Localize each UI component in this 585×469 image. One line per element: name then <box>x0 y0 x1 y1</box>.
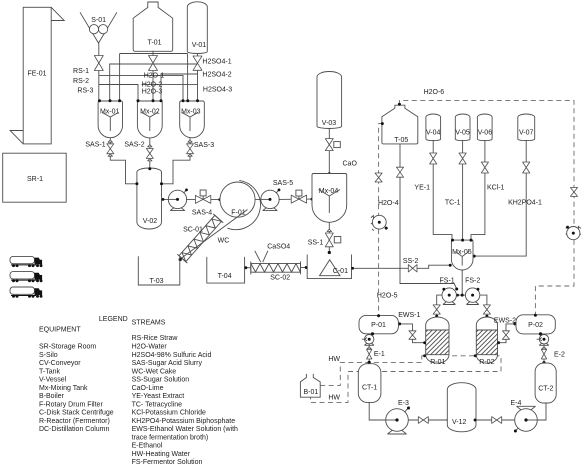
svg-text:SAS-4: SAS-4 <box>192 210 212 217</box>
valve E-2 <box>541 347 565 359</box>
svg-text:YE-1: YE-1 <box>414 185 430 192</box>
svg-text:SS-Sugar Solution: SS-Sugar Solution <box>132 377 190 384</box>
wire FS-1 to R-01 <box>437 295 442 316</box>
wire TC-1 V-05 to Mx-05 <box>462 140 464 240</box>
pump before SAS-5 <box>261 180 293 211</box>
tank T-01 <box>133 2 173 51</box>
wire pump to SAS-5 valve to Mx-04 <box>279 198 312 200</box>
valve on H2O-6 right leg <box>570 188 577 197</box>
svg-text:SAS-Sugar Acid Slurry: SAS-Sugar Acid Slurry <box>132 360 203 367</box>
svg-text:TC- Tetracycline: TC- Tetracycline <box>132 401 183 408</box>
svg-text:STREAMS: STREAMS <box>132 319 166 326</box>
wire H2O-3 branch high to Mx-03 <box>120 53 188 55</box>
svg-text:V-02: V-02 <box>143 218 158 225</box>
svg-text:V-07: V-07 <box>519 130 534 137</box>
svg-text:Mx-Mixing Tank: Mx-Mixing Tank <box>39 385 88 392</box>
truck 3 <box>10 287 43 298</box>
svg-text:WC: WC <box>218 238 230 245</box>
svg-text:P-01: P-01 <box>371 322 386 329</box>
svg-text:KH2PO4-1: KH2PO4-1 <box>508 200 542 207</box>
valve on T-01 outlet (double) <box>149 56 158 71</box>
svg-text:T-04: T-04 <box>218 273 232 280</box>
svg-text:H2O-Water: H2O-Water <box>132 344 168 351</box>
wire V-12 to E-4 <box>476 419 515 421</box>
mixing tank Mx-02 <box>137 101 162 138</box>
svg-text:RS-3: RS-3 <box>77 87 93 94</box>
bucket elevator FE-01 <box>10 7 64 144</box>
svg-text:V-05: V-05 <box>455 130 470 137</box>
svg-text:B-01: B-01 <box>304 389 319 396</box>
valve on V-01 outlet (double) <box>193 56 202 70</box>
storage room SR-1 <box>3 153 66 202</box>
screw conveyor SC-02 <box>251 261 301 281</box>
svg-text:H2O-6: H2O-6 <box>424 89 445 96</box>
valve KH2PO4-1 <box>523 162 530 173</box>
svg-text:Mx-05: Mx-05 <box>452 249 472 256</box>
svg-text:T-05: T-05 <box>394 137 408 144</box>
tank T-03 (open top) <box>138 256 180 285</box>
svg-text:H2O-2: H2O-2 <box>142 82 163 89</box>
control valve SAS-4 <box>192 190 212 217</box>
wire RS-2 branch to Mx-03 <box>99 75 183 101</box>
svg-text:RS-Rice Straw: RS-Rice Straw <box>132 335 179 342</box>
arrow into T-03 <box>179 258 182 261</box>
valve SAS-1 (double) <box>107 140 114 156</box>
pump under P-02 <box>537 335 549 346</box>
wire H2O-5 dashed pump to P-01 <box>378 229 380 315</box>
svg-text:H2O-3: H2O-3 <box>142 89 163 96</box>
valve YE-1 <box>430 153 437 164</box>
svg-text:CT-2: CT-2 <box>538 385 553 392</box>
valve between E-3 and V-12 <box>418 417 428 424</box>
wire H2O-6 dashed main <box>399 100 574 228</box>
svg-text:S-01: S-01 <box>91 17 106 24</box>
svg-text:Mx-02: Mx-02 <box>140 108 160 115</box>
tower CT-1 <box>358 364 381 403</box>
svg-text:R-01: R-01 <box>430 359 445 366</box>
centrifuge C-01 (open tank with triangle) <box>307 255 351 279</box>
wire HW heating loop dashed <box>311 356 502 403</box>
wire KH2PO4-1 V-07 to Mx-05 <box>473 140 526 256</box>
svg-text:RS-2: RS-2 <box>73 78 89 85</box>
svg-text:LEGEND: LEGEND <box>99 316 128 323</box>
valve TC-1 <box>459 153 466 164</box>
wet cake line F-01 to T-03 <box>180 210 248 260</box>
svg-text:C-01: C-01 <box>333 268 348 275</box>
valve on S-01 outlet (double) <box>94 56 103 71</box>
wire FS-2 to R-02 <box>480 295 487 316</box>
pump FS-1 <box>440 277 457 304</box>
vessel V-07 <box>518 114 535 141</box>
svg-text:FS-1: FS-1 <box>440 277 455 284</box>
wire RS from S-01 down to Mx-01 <box>98 43 100 101</box>
junction dots into V-02 <box>135 182 138 185</box>
valve CaO with actuator <box>325 139 340 151</box>
svg-text:E-2: E-2 <box>554 351 565 358</box>
valve between V-12 and E-4 <box>492 417 502 424</box>
svg-text:E-3: E-3 <box>398 400 409 407</box>
svg-text:EWS-1: EWS-1 <box>398 312 420 319</box>
wire EWS-2 R-02 to P-02 <box>498 324 517 343</box>
wire T-04 to SC-02 <box>245 267 251 269</box>
valve E-1 <box>367 347 385 359</box>
svg-text:SC-02: SC-02 <box>270 275 290 282</box>
tank T-04 (open top) <box>207 257 245 283</box>
wire H2O-6 to P-02 <box>535 240 574 315</box>
wire H2SO4-2 branch to Mx-02 <box>161 74 198 101</box>
svg-text:CV-Conveyor: CV-Conveyor <box>39 360 81 367</box>
control valve SAS-5 <box>291 190 306 203</box>
svg-text:YE-Yeast Extract: YE-Yeast Extract <box>132 393 185 400</box>
svg-text:HW: HW <box>328 394 340 401</box>
svg-text:V-03: V-03 <box>322 120 337 127</box>
svg-text:SC-01: SC-01 <box>183 227 203 234</box>
svg-text:KCl-Potassium Chloride: KCl-Potassium Chloride <box>132 410 206 417</box>
valve SS-1 (double, actuator) <box>308 229 341 247</box>
nozzle dots on mixers <box>98 99 199 102</box>
wire SAS-1 Mx-01 to V-02 <box>110 138 137 184</box>
pump after V-02 <box>168 189 188 211</box>
pump E-4 <box>510 400 537 432</box>
screw conveyor SC-01 <box>177 214 223 263</box>
svg-text:SR-1: SR-1 <box>27 176 43 183</box>
svg-text:EQUIPMENT: EQUIPMENT <box>39 327 81 334</box>
svg-text:TC-1: TC-1 <box>445 200 461 207</box>
wire V-03 to Mx-04 <box>328 128 330 174</box>
wire RS-3 branch to Mx-02 <box>99 85 138 102</box>
vessel V-06 <box>477 114 492 141</box>
svg-text:E-1: E-1 <box>374 351 385 358</box>
rotary drum filter F-01 <box>220 180 261 229</box>
svg-text:F-Rotary Drum Filter: F-Rotary Drum Filter <box>39 401 103 408</box>
svg-text:HW: HW <box>328 356 340 363</box>
tower CT-2 <box>535 363 556 403</box>
svg-text:WC-Wet Cake: WC-Wet Cake <box>132 368 177 375</box>
wire H2SO4-1 branch to Mx-01 <box>110 64 198 101</box>
valve on R-02 feed <box>483 305 490 314</box>
svg-text:E-4: E-4 <box>510 400 521 407</box>
silo S-01 <box>80 12 117 43</box>
wire YE-1 V-04 to Mx-05 <box>433 140 452 240</box>
svg-text:T-Tank: T-Tank <box>39 368 61 375</box>
vessel V-12 <box>447 383 476 432</box>
svg-text:R-02: R-02 <box>479 359 494 366</box>
svg-text:DC-Distillation Column: DC-Distillation Column <box>39 426 110 433</box>
svg-text:CaO: CaO <box>343 161 358 168</box>
svg-text:B-Boiler: B-Boiler <box>39 393 65 400</box>
valve on R-01 feed <box>433 305 440 314</box>
svg-text:CaO-Lime: CaO-Lime <box>132 385 164 392</box>
svg-text:F-01: F-01 <box>231 210 246 217</box>
svg-text:SS-1: SS-1 <box>308 239 324 246</box>
vessel P-01 (horizontal) <box>359 315 398 333</box>
svg-text:T-01: T-01 <box>147 40 161 47</box>
svg-text:H2O-4: H2O-4 <box>378 200 399 207</box>
wire F-01 to pump <box>255 198 279 200</box>
valve KCl-1 <box>481 162 488 173</box>
wire CT-1 to E-3 <box>369 402 386 420</box>
boiler B-01 <box>300 374 320 397</box>
svg-text:CT-1: CT-1 <box>362 385 377 392</box>
wire SC-02 to C-01 <box>301 267 308 269</box>
svg-text:S-Silo: S-Silo <box>39 352 58 359</box>
wire SS-2 C-01 to Mx-05 <box>352 265 452 268</box>
svg-text:H2SO4-3: H2SO4-3 <box>203 87 232 94</box>
svg-text:V-04: V-04 <box>426 130 441 137</box>
svg-text:H2O-5: H2O-5 <box>377 292 398 299</box>
mixing tank Mx-01 <box>98 101 122 138</box>
svg-text:P-02: P-02 <box>528 322 543 329</box>
valve SAS-3 (double) <box>187 140 194 156</box>
vessel V-01 <box>187 2 207 54</box>
wire E-3 to V-12 <box>408 419 447 421</box>
vessel V-04 <box>426 114 441 141</box>
svg-text:FS-2: FS-2 <box>465 277 480 284</box>
svg-text:EWS-Ethanol Water Solution (wi: EWS-Ethanol Water Solution (with <box>132 426 238 433</box>
svg-text:Mx-01: Mx-01 <box>100 108 120 115</box>
svg-text:RS-1: RS-1 <box>73 68 89 75</box>
vessel P-02 (horizontal) <box>516 315 555 334</box>
wire SAS-2 Mx-02 to V-02 <box>149 138 151 169</box>
vessel V-05 <box>455 114 470 141</box>
mixing tank Mx-05 <box>451 240 473 270</box>
wire H2O-4 dashed from T-05 left <box>379 124 383 216</box>
truck 1 <box>10 256 43 267</box>
wire CT-2 to E-4 <box>537 403 546 420</box>
pump on H2O line <box>371 215 388 230</box>
reactor R-02 <box>454 317 520 366</box>
svg-text:E-Ethanol: E-Ethanol <box>132 443 163 450</box>
valve SAS-2 (double) <box>146 145 153 161</box>
valve on H2O-4 <box>375 173 382 182</box>
valve EWS-2 <box>502 331 509 340</box>
svg-text:T-03: T-03 <box>149 278 163 285</box>
wire Mx-05 to FS pumps <box>461 270 463 295</box>
wire pump to SAS-4 valve to F-01 <box>186 198 220 200</box>
svg-text:HW-Heating Water: HW-Heating Water <box>132 451 191 458</box>
wire SAS-3 Mx-03 to V-02 <box>162 138 191 184</box>
svg-text:KH2PO4-Potassium Biphosphate: KH2PO4-Potassium Biphosphate <box>132 418 236 425</box>
svg-text:H2SO4-2: H2SO4-2 <box>202 72 231 79</box>
wire KCl-1 V-06 to Mx-05 <box>471 140 485 240</box>
svg-text:Mx-03: Mx-03 <box>181 108 201 115</box>
svg-text:SAS-3: SAS-3 <box>194 142 214 149</box>
reactor R-01 <box>403 317 469 366</box>
pump E-3 <box>386 400 410 434</box>
svg-text:SAS-5: SAS-5 <box>273 180 293 187</box>
wire V-02 to pump <box>162 198 187 200</box>
svg-text:KCl-1: KCl-1 <box>487 185 505 192</box>
mixing tank Mx-04 <box>312 174 347 223</box>
mixing tank Mx-03 <box>180 101 205 138</box>
svg-text:SAS-1: SAS-1 <box>85 142 105 149</box>
svg-text:EWS-2: EWS-2 <box>494 317 516 324</box>
svg-text:CaSO4: CaSO4 <box>267 243 290 250</box>
wire H2O from T-01 down to Mx-02 <box>152 51 154 101</box>
valve on T-05 outlet <box>396 167 403 177</box>
legend <box>39 316 238 466</box>
svg-text:H2SO4-98% Sulfuric Acid: H2SO4-98% Sulfuric Acid <box>132 352 212 359</box>
valve EWS-1 <box>409 331 416 340</box>
vessel V-03 <box>317 72 342 129</box>
svg-text:R-Reactor (Fermentor): R-Reactor (Fermentor) <box>39 418 110 425</box>
pump FS-2 <box>465 277 480 304</box>
wire T-05 bottom to FS pumps <box>400 144 457 289</box>
wire H2SO4 from V-01 down to Mx-03 <box>197 54 199 102</box>
tank T-05 <box>382 105 418 144</box>
vessel V-02 <box>137 168 162 229</box>
CaSO4 offtake marks <box>255 251 268 262</box>
svg-text:trace fermentation broth): trace fermentation broth) <box>132 434 209 441</box>
wire P-01 to pump E-1 <box>368 334 370 347</box>
svg-text:FE-01: FE-01 <box>27 71 46 78</box>
svg-text:V-01: V-01 <box>192 42 207 49</box>
pump under P-01 <box>362 335 374 346</box>
svg-text:V-06: V-06 <box>478 130 493 137</box>
svg-text:FS-Fermentor Solution: FS-Fermentor Solution <box>132 459 203 466</box>
svg-text:SAS-2: SAS-2 <box>124 142 144 149</box>
wire EWS-1 R-01 to P-01 <box>398 324 425 343</box>
valve SS-2 <box>403 258 419 272</box>
wire P-02 to pump E-2 <box>543 334 545 347</box>
svg-text:H2SO4-1: H2SO4-1 <box>202 59 231 66</box>
pump on H2O-6 <box>566 226 581 240</box>
truck 2 <box>10 272 43 283</box>
svg-text:SS-2: SS-2 <box>403 258 419 265</box>
svg-text:V-12: V-12 <box>452 419 467 426</box>
svg-text:C-Disk Stack Centrifuge: C-Disk Stack Centrifuge <box>39 410 114 417</box>
wire Mx-04 to SS-1 valve to C-01 <box>328 222 330 253</box>
svg-text:V-Vessel: V-Vessel <box>39 377 67 384</box>
svg-text:H2O-1: H2O-1 <box>144 73 165 80</box>
svg-text:SR-Storage Room: SR-Storage Room <box>39 344 96 351</box>
